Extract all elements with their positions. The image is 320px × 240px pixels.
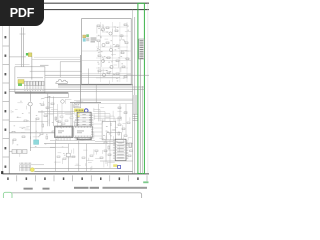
wire horizontal upper continuation [34, 56, 80, 58]
transistor Q9 [61, 100, 65, 104]
wire horizontal y113 [44, 113, 74, 115]
resistors right of block [118, 107, 130, 137]
highlight cyan component [34, 140, 39, 145]
resistors below ICs [57, 150, 98, 160]
highlight green component in left block [18, 84, 22, 87]
wire from yellow square down [31, 57, 33, 80]
IC U1 pin rows inside [77, 114, 91, 138]
highlight yellow mark under U4 [113, 164, 117, 167]
highlight yellow square [28, 53, 32, 57]
wire bus segment f [9, 88, 145, 90]
wire vertical x96 [95, 85, 97, 103]
IC U2 U3 inner pin ticks [56, 126, 91, 137]
next page top border [8, 193, 142, 198]
wire bus segment k dark [70, 101, 101, 103]
wire bus segment h [80, 98, 133, 100]
wire horizontal y121 [9, 121, 48, 123]
IC U1 body [77, 112, 91, 139]
wire horizontal y161 [100, 160, 133, 162]
wire bus segment j [74, 100, 133, 102]
highlight yellow circle [30, 168, 34, 172]
wire vertical x78 to bottom [78, 141, 80, 172]
transistor Q5 [101, 59, 104, 62]
connector CN1 body [139, 39, 144, 59]
wire vertical pair x47-49 [48, 93, 50, 126]
wire cluster center [38, 99, 83, 129]
component value labels top-right block [97, 26, 129, 82]
capacitor C21 [118, 132, 120, 135]
IC U2 label marks [58, 131, 64, 134]
wire bus segment c [45, 76, 120, 78]
small block above U1 [74, 103, 81, 108]
wire long horizontal left [9, 132, 64, 134]
annotation blue square [118, 166, 121, 169]
wire long y171 [34, 170, 132, 172]
IC U1 inner stripe rows [79, 114, 89, 138]
wire diagonal bend [41, 96, 51, 99]
left outer margin line [2, 3, 4, 174]
wire grid inside top-right block [96, 22, 128, 82]
capacitors center-left vertical [42, 117, 57, 139]
sub-circuit block border left [15, 67, 45, 93]
wire bus segment e [58, 86, 145, 88]
wire vertical x36 [35, 118, 37, 140]
IC U3 body [74, 126, 92, 137]
green margin rectangle [138, 3, 145, 173]
zone numbers bottom edge [7, 177, 139, 180]
component value labels center-left [12, 101, 65, 156]
connector P1 pin boxes [24, 81, 44, 86]
wire vertical x126 [125, 104, 127, 135]
resistors upper center-left [41, 103, 54, 109]
wire top border line upper [0, 2, 149, 4]
wire horizontal y141 [95, 141, 113, 143]
wire bus segment i [47, 97, 68, 99]
wire vertical pair from top [22, 28, 24, 67]
wire vertical x106 [105, 140, 107, 164]
image placeholder icon yellow part [83, 35, 86, 38]
wire stubs crossing right zone [133, 114, 138, 120]
IC U4 pin stubs left [113, 141, 115, 159]
connector P1 pin numbers [24, 89, 43, 92]
transistor Q3 [102, 43, 105, 46]
connector CN1 rung marks [140, 40, 144, 59]
wire cluster bottom-middle [54, 140, 127, 172]
IC U1 pin stubs left outside [75, 114, 77, 138]
transistor Q4 [109, 48, 112, 51]
wire vertical x120 [119, 104, 121, 121]
connector CN3 right of U4 [129, 143, 132, 147]
wire vertical x42 [41, 110, 43, 133]
wire vertical in green channel 2 [141, 86, 143, 174]
block border right-center [102, 121, 116, 140]
wire y147 under ICs [50, 146, 68, 148]
wire horizontal y111 [38, 111, 80, 113]
connector J3 pin numbers row [20, 163, 32, 164]
wire vertical x110 [109, 140, 111, 168]
label text lines beside icon [91, 38, 97, 43]
green highlight mark zone 8 [143, 181, 148, 183]
wire vertical x68 corner [67, 93, 69, 98]
wire horizontal dividers top-right block [82, 51, 131, 73]
zone letter A bottom-left corner [1, 171, 3, 174]
label text above connector [17, 76, 43, 79]
image placeholder icon green arrow [86, 34, 89, 37]
zone tick marks left margin [3, 46, 10, 157]
wire vertical x68 to bottom [67, 144, 69, 172]
wires U1 to right-center block [91, 124, 102, 136]
next page green badge top [3, 192, 12, 199]
IC U2 U3 pin stubs below [56, 138, 92, 141]
wire vertical x60 [59, 62, 61, 78]
bottom frame line [3, 173, 149, 175]
wire vertical right of zone border [134, 17, 136, 174]
IC U1 highlighted pins yellow [78, 113, 80, 117]
wire bus segment a [30, 70, 82, 72]
title text SCHEMATIC [74, 187, 89, 189]
PDF badge [0, 0, 44, 26]
wire box outline below right-center [107, 133, 122, 140]
wire fan from U1 to right [93, 110, 118, 122]
transistor Q7 [102, 73, 105, 76]
IC U4 label marks [117, 142, 124, 158]
marks in small block above U1 [75, 104, 79, 106]
wire cluster right-middle [94, 108, 132, 144]
title text CV-2131A CV-2131B CV-2136A [103, 187, 148, 189]
wire vertical trunk x80 [80, 55, 82, 103]
wire bus segment d dark [58, 84, 133, 86]
transistor Q8 [28, 102, 32, 106]
IC U1 center text marks [82, 114, 85, 135]
wire vertical x88 [87, 69, 89, 85]
zone tick marks bottom edge [17, 175, 147, 181]
wire vertical through Q8 lower [29, 107, 31, 152]
chassis bracket outline [56, 80, 68, 84]
wire cluster small components bottom center [60, 116, 77, 125]
wire cluster left-middle [11, 103, 38, 157]
transistor Q6 [110, 65, 113, 68]
block bottom heavy line [15, 92, 68, 94]
IC U4 pin stubs right [126, 141, 128, 159]
wire horizontal y147 [30, 147, 55, 149]
wire verticals above U2 [58, 104, 63, 126]
wire above left block [15, 64, 30, 66]
wire vertical through Q8 upper [29, 91, 31, 101]
wire y143 under ICs [44, 143, 133, 145]
IC U4 body [115, 139, 126, 160]
wire vertical x53 [53, 97, 55, 127]
wire horizontal below squares [32, 59, 80, 61]
highlight green square [26, 53, 28, 56]
IC U4 inner stripe rows [115, 141, 126, 159]
text inside yellow bar [76, 110, 83, 111]
title text DIAGRAM [90, 187, 99, 189]
image placeholder icon gray part [86, 38, 89, 42]
IC U2 body double border [55, 126, 73, 137]
zone letters left margin [5, 36, 7, 168]
marks inside right-center block [103, 124, 116, 137]
wire vertical in green channel 1 [139, 59, 141, 174]
transistor Q2 [109, 32, 112, 35]
left zone border line [8, 10, 10, 174]
wire verticals left of U1 [71, 103, 75, 127]
wire top border line lower [0, 9, 149, 11]
transistor Q1 [101, 28, 104, 31]
wire long y168 [34, 167, 117, 169]
right outer margin line [147, 3, 149, 174]
highlight yellow component in left block [18, 80, 24, 84]
wire tick on vertical pair [20, 33, 26, 35]
connector J2 boxes bottom-left [12, 150, 27, 154]
wire vertical x55 to bottom [55, 141, 57, 172]
connector J3 pin ticks [20, 165, 31, 171]
title text 1 and 4 [43, 188, 50, 190]
annotation blue circle [84, 109, 88, 113]
wire bus segment b [45, 74, 149, 76]
wire short segment y65 [40, 64, 49, 66]
connector P1 pin leads [25, 86, 44, 89]
divider in right-center block [110, 121, 112, 140]
highlight yellow bar above U1 [74, 109, 84, 113]
wire stub to J2 [9, 151, 12, 153]
wire corner top of trunk [60, 61, 81, 63]
wire mid J3 [20, 166, 31, 168]
resistors around U4 [100, 142, 133, 159]
wire bus segment g [9, 90, 132, 92]
resistors center-left [12, 115, 61, 141]
IC U1 pin stubs right outside [91, 114, 93, 138]
wire vertical x98 [98, 104, 100, 121]
resistors top-right block [97, 24, 129, 78]
title text SB-816-4 [24, 188, 33, 190]
wire bus segment l [74, 103, 133, 105]
image placeholder icon cyan part [83, 38, 86, 41]
wire above J3 [20, 164, 45, 166]
capacitor C30 [108, 146, 110, 149]
component D5 [66, 153, 70, 156]
wire vertical x86 to bottom [85, 144, 87, 172]
wire from green square to left border [9, 56, 26, 58]
sub-circuit block border top right [82, 19, 132, 85]
gray shaded column right [133, 95, 138, 114]
wire y140 under ICs [50, 140, 95, 142]
IC U3 label marks [77, 131, 84, 134]
wire cluster top-right block [97, 24, 131, 85]
right zone border line [132, 10, 134, 174]
